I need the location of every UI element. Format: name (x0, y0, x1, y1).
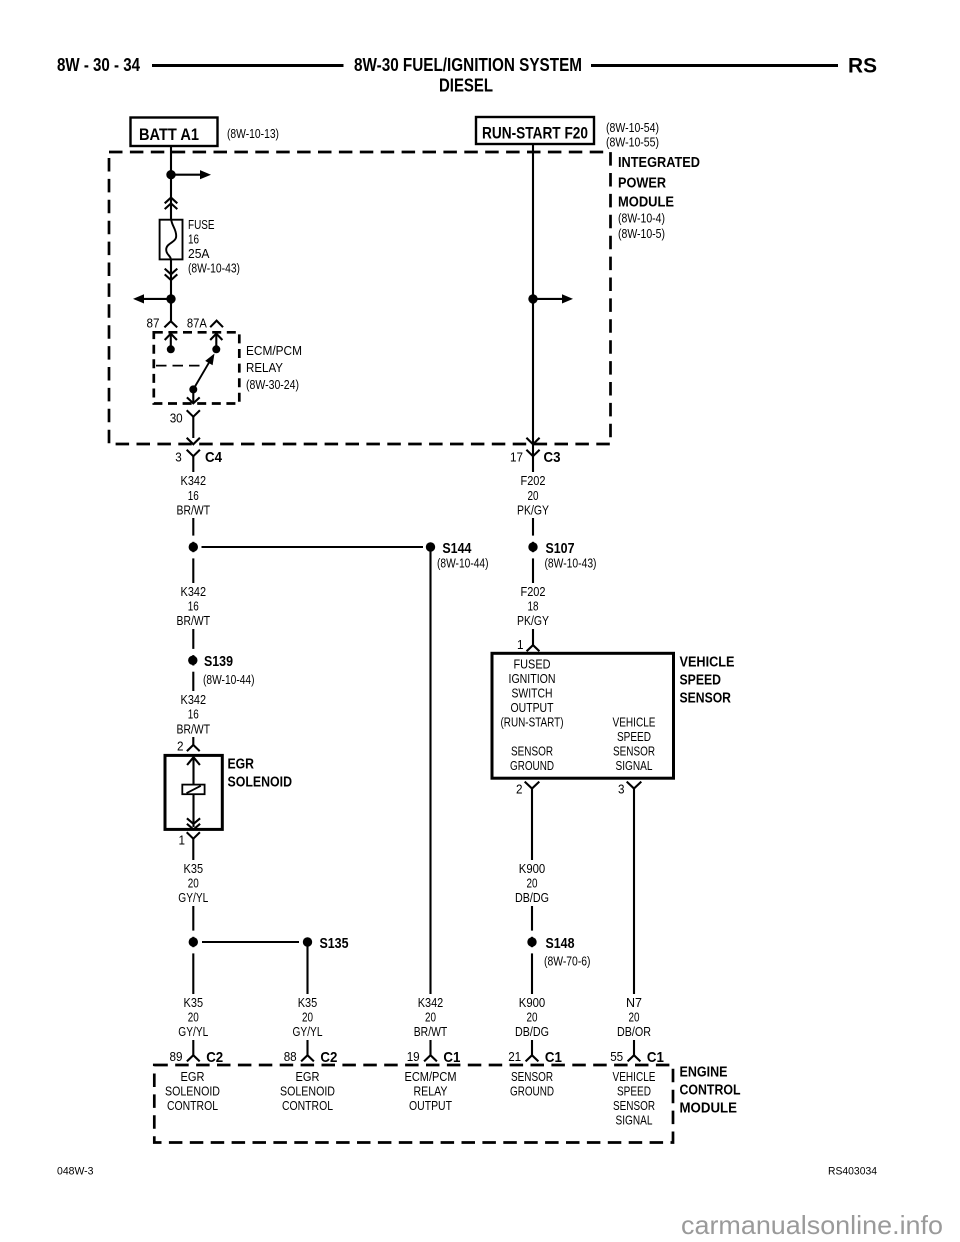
svg-text:K342: K342 (181, 693, 207, 707)
wire label K342 16 BR/WT (174, 583, 213, 629)
svg-text:SWITCH: SWITCH (512, 686, 553, 700)
pin 87 male connector (164, 321, 177, 327)
svg-text:DB/DG: DB/DG (515, 1025, 549, 1039)
svg-text:16: 16 (188, 233, 199, 247)
svg-text:(8W-10-44): (8W-10-44) (437, 556, 489, 570)
svg-text:SENSOR: SENSOR (680, 690, 732, 706)
svg-text:SOLENOID: SOLENOID (165, 1085, 220, 1099)
svg-text:C4: C4 (205, 449, 223, 466)
svg-text:(8W-10-44): (8W-10-44) (203, 673, 255, 687)
wire S135 to connector C2 pin 88 (306, 942, 308, 1055)
svg-text:(8W-10-4): (8W-10-4) (618, 211, 665, 225)
svg-text:CONTROL: CONTROL (680, 1083, 741, 1099)
svg-text:C2: C2 (206, 1049, 223, 1066)
svg-text:RS: RS (848, 55, 877, 78)
svg-text:ECM/PCM: ECM/PCM (405, 1070, 457, 1084)
svg-text:ENGINE: ENGINE (680, 1064, 728, 1080)
wire EGR pin 1 to connector C2 (192, 839, 194, 1056)
svg-text:BR/WT: BR/WT (414, 1025, 448, 1039)
EGR solenoid coil (182, 785, 204, 795)
relay switch arm (189, 385, 197, 393)
arrow into IPM border (187, 438, 200, 445)
svg-text:20: 20 (188, 1011, 199, 1025)
svg-text:K35: K35 (298, 996, 318, 1010)
svg-text:GY/YL: GY/YL (178, 891, 208, 905)
svg-text:PK/GY: PK/GY (517, 614, 550, 628)
header rule left (152, 64, 344, 67)
VSS pin 3 female connector (627, 782, 642, 789)
svg-text:carmanualsonline.info: carmanualsonline.info (681, 1210, 943, 1240)
svg-text:EGR: EGR (228, 757, 255, 773)
VSS pin 2 female connector (525, 782, 540, 789)
svg-text:DB/OR: DB/OR (617, 1025, 651, 1039)
svg-text:BR/WT: BR/WT (177, 614, 211, 628)
connector C1 pin 55 (628, 1055, 641, 1061)
svg-text:SIGNAL: SIGNAL (616, 759, 653, 773)
splice S144 (202, 546, 424, 548)
svg-text:SENSOR: SENSOR (613, 1099, 655, 1113)
svg-text:MODULE: MODULE (680, 1101, 738, 1117)
node BATT A1 (131, 118, 218, 147)
svg-text:BATT A1: BATT A1 (139, 125, 199, 144)
svg-text:K900: K900 (519, 862, 546, 876)
svg-text:(8W-10-43): (8W-10-43) (545, 556, 597, 570)
svg-text:INTEGRATED: INTEGRATED (618, 155, 700, 171)
svg-text:PK/GY: PK/GY (517, 504, 550, 518)
svg-text:87A: 87A (187, 316, 208, 330)
svg-text:1: 1 (517, 638, 524, 652)
vehicle speed sensor box (492, 653, 674, 778)
EGR solenoid box (165, 755, 222, 829)
svg-text:N7: N7 (626, 996, 642, 1010)
svg-text:30: 30 (170, 412, 183, 426)
relay common pin 30 (192, 389, 194, 403)
relay mechanical link (156, 365, 203, 367)
svg-text:16: 16 (188, 600, 199, 614)
svg-text:C1: C1 (647, 1049, 664, 1066)
connector C4 (187, 450, 200, 456)
svg-text:2: 2 (177, 740, 184, 754)
wire S144 to connector C1 pin 19 (429, 547, 431, 1055)
wire label F202 20 PK/GY (514, 472, 552, 518)
svg-text:S135: S135 (320, 936, 349, 952)
svg-text:GROUND: GROUND (510, 1085, 554, 1099)
svg-text:GY/YL: GY/YL (293, 1025, 323, 1039)
svg-text:(8W-10-43): (8W-10-43) (188, 262, 240, 276)
svg-text:16: 16 (188, 708, 199, 722)
junction dot with feed arrow right (528, 294, 537, 303)
svg-text:20: 20 (527, 1011, 538, 1025)
svg-text:(8W-10-13): (8W-10-13) (227, 127, 279, 141)
integrated power module box (109, 152, 611, 444)
relay contact 87 (170, 333, 172, 349)
wire from BATT A1 to relay (170, 146, 172, 321)
svg-text:SPEED: SPEED (680, 672, 722, 688)
svg-text:8W - 30 - 34: 8W - 30 - 34 (57, 55, 140, 75)
svg-text:FUSED: FUSED (514, 657, 551, 671)
svg-text:ECM/PCM: ECM/PCM (246, 344, 302, 358)
svg-text:C1: C1 (443, 1049, 460, 1066)
svg-text:SPEED: SPEED (617, 730, 651, 744)
svg-text:BR/WT: BR/WT (177, 722, 211, 736)
fuse 16 25A (160, 220, 183, 260)
svg-text:16: 16 (188, 489, 199, 503)
svg-text:S148: S148 (546, 936, 575, 952)
wire RUN-START F20 to VSS (532, 144, 534, 645)
svg-text:IGNITION: IGNITION (509, 672, 556, 686)
svg-text:C3: C3 (544, 449, 561, 466)
svg-text:K35: K35 (184, 996, 204, 1010)
svg-text:(8W-10-55): (8W-10-55) (606, 136, 659, 150)
node RUN-START F20 (476, 117, 594, 144)
svg-text:(8W-70-6): (8W-70-6) (544, 955, 591, 969)
svg-text:20: 20 (528, 489, 539, 503)
svg-text:K342: K342 (181, 585, 207, 599)
svg-text:K900: K900 (519, 996, 546, 1010)
svg-text:87: 87 (147, 316, 160, 330)
svg-text:(8W-10-54): (8W-10-54) (606, 121, 659, 135)
svg-text:20: 20 (629, 1011, 640, 1025)
svg-text:55: 55 (610, 1050, 623, 1064)
svg-text:S144: S144 (442, 541, 471, 557)
svg-text:RS403034: RS403034 (828, 1166, 877, 1178)
svg-text:SOLENOID: SOLENOID (228, 774, 293, 790)
svg-text:K342: K342 (181, 474, 207, 488)
EGR solenoid internal wire (192, 794, 194, 827)
svg-text:20: 20 (425, 1011, 436, 1025)
svg-text:DIESEL: DIESEL (439, 76, 493, 96)
svg-text:VEHICLE: VEHICLE (613, 1070, 656, 1084)
svg-text:RUN-START F20: RUN-START F20 (482, 124, 588, 143)
junction dot with feed arrow (166, 170, 175, 179)
svg-text:OUTPUT: OUTPUT (409, 1099, 452, 1113)
wire C4 to EGR solenoid (192, 456, 194, 745)
svg-text:C1: C1 (545, 1049, 562, 1066)
svg-text:20: 20 (302, 1011, 313, 1025)
wire VSS pin 2 to connector C1 pin 21 (531, 789, 533, 1056)
arrow into IPM border (526, 438, 539, 445)
svg-text:1: 1 (179, 834, 186, 848)
engine control module box (154, 1065, 673, 1143)
svg-text:K35: K35 (184, 862, 204, 876)
svg-text:SOLENOID: SOLENOID (280, 1085, 335, 1099)
svg-text:POWER: POWER (618, 175, 666, 191)
svg-text:GY/YL: GY/YL (178, 1025, 208, 1039)
svg-text:(RUN-START): (RUN-START) (501, 715, 564, 729)
svg-text:GROUND: GROUND (510, 759, 554, 773)
svg-text:VEHICLE: VEHICLE (680, 654, 735, 670)
svg-text:EGR: EGR (181, 1070, 205, 1084)
svg-text:VEHICLE: VEHICLE (613, 715, 656, 729)
wire label F202 18 PK/GY (514, 583, 552, 629)
EGR pin 2 male connector (187, 745, 200, 751)
svg-text:18: 18 (528, 600, 539, 614)
svg-text:8W-30 FUEL/IGNITION SYSTEM: 8W-30 FUEL/IGNITION SYSTEM (354, 55, 582, 75)
wire VSS pin 3 to connector C1 pin 55 (633, 789, 635, 1056)
wire label N7 20 DB/OR (615, 994, 653, 1040)
svg-text:SENSOR: SENSOR (511, 1070, 553, 1084)
svg-text:SENSOR: SENSOR (511, 744, 553, 758)
wire label K35 20 GY/YL (289, 994, 326, 1040)
svg-text:EGR: EGR (296, 1070, 320, 1084)
svg-text:3: 3 (175, 451, 182, 465)
svg-text:S139: S139 (204, 654, 233, 670)
wire label K342 16 BR/WT (174, 691, 213, 737)
svg-text:MODULE: MODULE (618, 195, 674, 211)
VSS pin 1 male connector (527, 645, 540, 651)
svg-text:SENSOR: SENSOR (613, 744, 655, 758)
svg-text:SIGNAL: SIGNAL (616, 1114, 653, 1128)
inline connector double chevron down (165, 269, 178, 275)
wire label K35 20 GY/YL (175, 860, 212, 906)
svg-text:RELAY: RELAY (246, 361, 284, 375)
svg-text:20: 20 (188, 877, 199, 891)
svg-text:OUTPUT: OUTPUT (511, 701, 554, 715)
svg-text:CONTROL: CONTROL (167, 1099, 218, 1113)
EGR solenoid double chevron (187, 818, 200, 824)
splice S107 (531, 536, 534, 542)
connector C1 pin 21 (526, 1055, 539, 1061)
relay contact 87A (215, 333, 217, 349)
svg-text:17: 17 (510, 451, 523, 465)
svg-text:DB/DG: DB/DG (515, 891, 549, 905)
junction dot with feed arrow left (166, 294, 175, 303)
wire label K900 20 DB/DG (512, 860, 552, 906)
wire label K900 20 DB/DG (512, 994, 552, 1040)
svg-text:2: 2 (516, 782, 523, 796)
wire label K342 20 BR/WT (411, 994, 450, 1040)
splice S148 (530, 931, 533, 937)
header rule right (591, 64, 838, 67)
pin 30 female connector (192, 416, 194, 438)
inline connector double chevron up (165, 198, 178, 204)
splice S139 (192, 649, 195, 655)
svg-text:88: 88 (284, 1050, 297, 1064)
svg-text:CONTROL: CONTROL (282, 1099, 333, 1113)
svg-text:19: 19 (407, 1050, 420, 1064)
EGR solenoid internal wire arrow (192, 758, 194, 785)
svg-text:RELAY: RELAY (414, 1085, 449, 1099)
EGR pin 1 female connector (187, 832, 200, 838)
svg-text:89: 89 (170, 1050, 183, 1064)
svg-text:21: 21 (508, 1050, 521, 1064)
svg-text:20: 20 (527, 877, 538, 891)
svg-text:(8W-30-24): (8W-30-24) (246, 378, 299, 392)
connector C3 (526, 450, 539, 456)
wire label K342 16 BR/WT (174, 472, 213, 518)
connector C1 pin 19 (424, 1055, 437, 1061)
pin 87A chevron (210, 321, 223, 328)
wire label K35 20 GY/YL (175, 994, 212, 1040)
svg-text:C2: C2 (320, 1049, 337, 1066)
svg-text:S107: S107 (546, 541, 575, 557)
splice S135 (202, 941, 299, 943)
ECM/PCM relay box (154, 332, 240, 403)
svg-text:BR/WT: BR/WT (177, 504, 211, 518)
svg-text:SPEED: SPEED (617, 1085, 651, 1099)
svg-text:048W-3: 048W-3 (57, 1166, 94, 1178)
svg-text:F202: F202 (521, 474, 546, 488)
connector C2 pin 89 (187, 1055, 200, 1061)
svg-text:F202: F202 (521, 585, 546, 599)
svg-text:3: 3 (618, 782, 625, 796)
svg-text:FUSE: FUSE (188, 218, 215, 232)
svg-text:25A: 25A (188, 247, 210, 261)
svg-text:K342: K342 (418, 996, 444, 1010)
connector C2 pin 88 (301, 1055, 314, 1061)
svg-text:(8W-10-5): (8W-10-5) (618, 227, 665, 241)
